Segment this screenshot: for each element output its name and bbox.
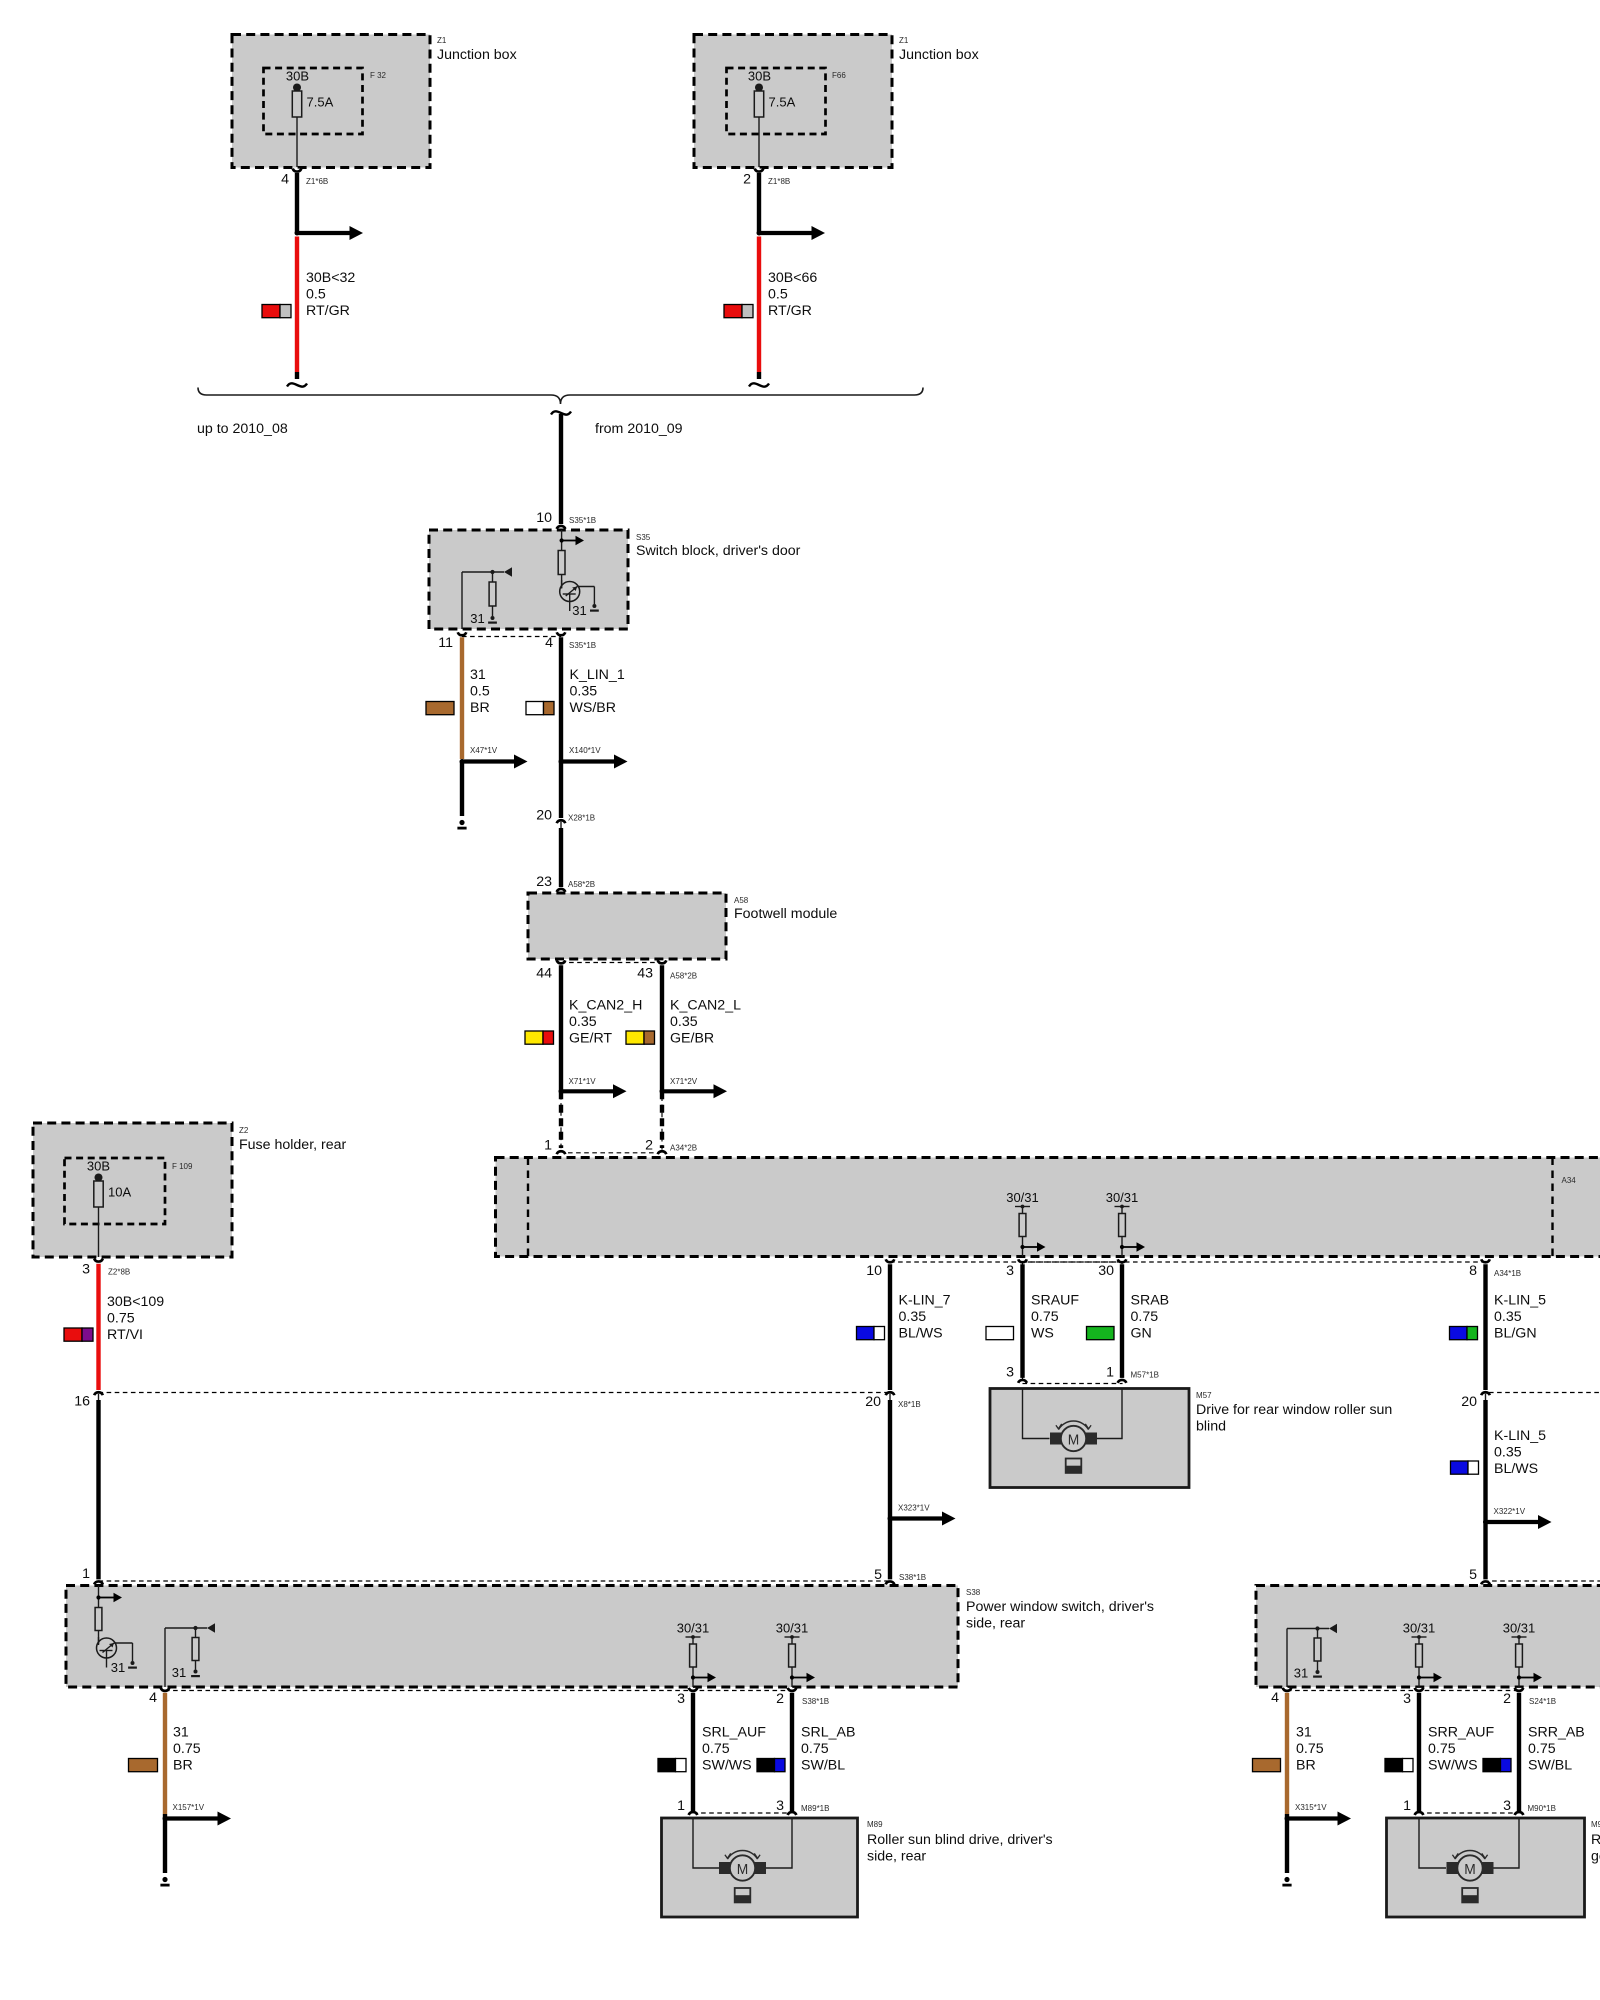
svg-text:3: 3 (776, 1798, 784, 1814)
svg-text:31: 31 (1294, 1666, 1308, 1681)
svg-text:31: 31 (470, 667, 486, 683)
svg-text:31: 31 (172, 1665, 186, 1680)
svg-text:A58: A58 (734, 896, 749, 905)
svg-text:4: 4 (1271, 1690, 1279, 1706)
svg-text:Z2*8B: Z2*8B (108, 1268, 130, 1277)
svg-text:A58*2B: A58*2B (670, 972, 697, 981)
svg-text:31: 31 (111, 1660, 125, 1675)
S24 30/31 resistor branch (SRR_AUF) (1403, 1621, 1442, 1687)
svg-text:3: 3 (1006, 1365, 1014, 1381)
S38 internal horn node (pin 4 branch) (165, 1623, 215, 1687)
svg-text:0.75: 0.75 (801, 1741, 829, 1757)
colour swatch GE/BR (626, 1031, 655, 1044)
svg-text:0.75: 0.75 (173, 1741, 201, 1757)
svg-text:2: 2 (645, 1137, 653, 1153)
S35 internal resistor to ground 31 (470, 572, 497, 626)
colour swatch GN (1087, 1327, 1115, 1340)
wire SRL_AB 0.75 SW/BL (790, 1693, 794, 1812)
svg-text:WS/BR: WS/BR (570, 700, 617, 716)
S38 30/31 resistor branch (SRL_AB) (776, 1621, 815, 1687)
label K_CAN2_L (670, 998, 741, 1047)
svg-text:SW/WS: SW/WS (702, 1758, 752, 1774)
svg-text:2: 2 (743, 172, 751, 188)
label 30B<66 (768, 270, 817, 319)
M57 motor wiring (1023, 1389, 1123, 1439)
variant brace (up to 2010_08 / from 2010_09) (197, 388, 923, 438)
svg-text:K_CAN2_H: K_CAN2_H (569, 998, 642, 1014)
wire 31 0.75 BR (brown) from S38 pin 4 (163, 1693, 167, 1814)
wire 30B&lt;66 0.5 RT/GR (red) (757, 237, 761, 380)
svg-text:2: 2 (776, 1691, 784, 1707)
label SRL_AB (801, 1725, 855, 1774)
label 30B<32 (306, 270, 355, 319)
S35 internal node with arrow (560, 530, 585, 550)
svg-text:M90: M90 (1591, 1820, 1600, 1829)
colour swatch SW/BL (757, 1759, 785, 1772)
power window switch S24 (passenger&#39;s side, rear) (1256, 1586, 1600, 1688)
dashed continuation of K_CAN2_H (559, 1091, 563, 1148)
node X323*1V with arrow (888, 1504, 956, 1526)
colour swatch BL/GN (1450, 1327, 1478, 1340)
footwell module A58 (528, 893, 837, 959)
wire from brace to S35 pin 10 (559, 414, 563, 524)
svg-text:K-LIN_5: K-LIN_5 (1494, 1293, 1546, 1309)
svg-text:S38*1B: S38*1B (802, 1697, 829, 1706)
svg-text:A34*2B: A34*2B (670, 1143, 697, 1152)
svg-text:30B<32: 30B<32 (306, 270, 355, 286)
svg-text:X315*1V: X315*1V (1295, 1803, 1327, 1812)
pin 16 connector (74, 1392, 103, 1409)
S35 transistor with ground 31 (560, 575, 599, 619)
S38 top connector row S38*1B (82, 1566, 892, 1584)
svg-text:44: 44 (536, 966, 552, 982)
fuse holder F 109 (65, 1158, 194, 1224)
S38 internal resistor (95, 1608, 102, 1631)
node X157*1V with arrow (163, 1803, 232, 1826)
node X315*1V with arrow (1285, 1803, 1352, 1826)
svg-text:30/31: 30/31 (1006, 1190, 1039, 1205)
node X71*1V with arrow (559, 1077, 627, 1098)
wire K-LIN_7 0.35 BL/WS (888, 1264, 892, 1390)
pin 10 connector S35*1B (536, 510, 596, 529)
svg-text:3: 3 (82, 1262, 90, 1278)
fuse F66 7.5A, circuit 30B (748, 69, 796, 168)
label 30B<109 (107, 1294, 164, 1343)
S24 bottom connector row S24*1B: pins 4, 3, 2 (1271, 1688, 1556, 1707)
svg-text:0.75: 0.75 (1528, 1741, 1556, 1757)
svg-text:K_LIN_1: K_LIN_1 (570, 667, 625, 683)
svg-text:X47*1V: X47*1V (470, 746, 498, 755)
svg-text:0.75: 0.75 (702, 1741, 730, 1757)
svg-text:Junction box: Junction box (437, 47, 517, 63)
label K-LIN_5 BL/GN (1494, 1293, 1546, 1342)
pin 3 connector Z2*8B (82, 1259, 130, 1278)
switch block S35 (driver&#39;s door) (429, 530, 801, 629)
svg-text:0.75: 0.75 (1428, 1741, 1456, 1757)
svg-text:10A: 10A (108, 1185, 131, 1200)
svg-text:1: 1 (82, 1566, 90, 1582)
svg-text:4: 4 (149, 1690, 157, 1706)
svg-text:M: M (737, 1861, 749, 1878)
connector row right of pin 20 (1489, 1392, 1600, 1394)
twisted pair envelope (K_CAN2) (561, 963, 662, 1153)
wire K-LIN_5 0.35 BL/WS (1483, 1400, 1487, 1579)
svg-text:4: 4 (545, 635, 553, 651)
M90 connector row M90*1B: pins 1, 3 (1403, 1798, 1556, 1815)
colour swatch RT/VI (64, 1328, 93, 1341)
svg-text:SW/WS: SW/WS (1428, 1758, 1478, 1774)
svg-text:30/31: 30/31 (776, 1621, 809, 1636)
fuse holder F32 (264, 68, 387, 134)
svg-text:Roller sun blind drive, passen: Roller sun blind drive, passen (1591, 1832, 1600, 1848)
svg-text:4: 4 (281, 172, 289, 188)
svg-text:A34*1B: A34*1B (1494, 1269, 1521, 1278)
svg-text:A58*2B: A58*2B (568, 880, 595, 889)
svg-text:3: 3 (1403, 1691, 1411, 1707)
svg-text:GE/BR: GE/BR (670, 1031, 714, 1047)
wire to footwell module (559, 828, 563, 887)
colour swatch GE/RT (525, 1031, 554, 1044)
svg-text:S24*1B: S24*1B (1529, 1697, 1556, 1706)
svg-text:Z1: Z1 (899, 36, 909, 45)
svg-text:SW/BL: SW/BL (801, 1758, 845, 1774)
svg-text:Switch block, driver's door: Switch block, driver's door (636, 543, 801, 559)
inline connector pin 20 X28*1B (536, 808, 595, 829)
svg-text:3: 3 (1006, 1263, 1014, 1279)
wire SRAUF 0.75 WS (1020, 1264, 1024, 1378)
svg-text:F 109: F 109 (172, 1162, 193, 1171)
label K-LIN_7 (899, 1293, 951, 1342)
svg-text:Drive for rear window roller s: Drive for rear window roller sun (1196, 1402, 1392, 1418)
svg-text:0.35: 0.35 (1494, 1445, 1522, 1461)
A34 30/31 resistor branch (SRAUF) (1006, 1190, 1045, 1256)
svg-text:8: 8 (1469, 1263, 1477, 1279)
wire stub to termination (457, 762, 466, 829)
svg-text:0.5: 0.5 (768, 287, 788, 303)
svg-text:SW/BL: SW/BL (1528, 1758, 1572, 1774)
svg-text:10: 10 (866, 1263, 882, 1279)
label SRR_AUF (1428, 1725, 1495, 1774)
svg-text:M: M (1068, 1432, 1080, 1449)
M57 connector row M57*1B: pins 3, 1 (1006, 1365, 1159, 1383)
wire SRR_AB 0.75 SW/BL (1517, 1693, 1521, 1812)
svg-text:31: 31 (470, 611, 484, 626)
junction box Z1 (right) (694, 35, 979, 168)
svg-text:BR: BR (173, 1758, 193, 1774)
svg-text:SRR_AUF: SRR_AUF (1428, 1725, 1495, 1741)
svg-text:blind: blind (1196, 1419, 1226, 1435)
pin 23 connector A58*2B (536, 874, 595, 892)
A58 bottom connector row A58*2B: pins 44, 43 (536, 960, 697, 981)
svg-text:BL/GN: BL/GN (1494, 1326, 1537, 1342)
drive for rear window roller sun blind M57 (990, 1389, 1392, 1488)
svg-text:0.35: 0.35 (899, 1309, 927, 1325)
svg-text:GN: GN (1131, 1326, 1152, 1342)
svg-text:Z2: Z2 (239, 1126, 249, 1135)
M90 motor wiring (1419, 1818, 1519, 1868)
svg-text:0.35: 0.35 (570, 684, 598, 700)
svg-text:0.5: 0.5 (470, 684, 490, 700)
svg-text:M89*1B: M89*1B (801, 1804, 829, 1813)
svg-text:0.75: 0.75 (1031, 1309, 1059, 1325)
wire to X323 node (888, 1400, 892, 1579)
svg-text:S35*1B: S35*1B (569, 641, 596, 650)
svg-text:20: 20 (1461, 1394, 1477, 1410)
svg-text:A34: A34 (1562, 1176, 1577, 1185)
A34 30/31 resistor branch (SRAB) (1106, 1190, 1145, 1256)
svg-text:31: 31 (173, 1725, 189, 1741)
svg-text:3: 3 (677, 1691, 685, 1707)
svg-text:X157*1V: X157*1V (173, 1803, 205, 1812)
fuse holder Z2, rear (33, 1123, 347, 1257)
M89 motor wiring (693, 1818, 792, 1868)
roller sun blind drive M89 (driver&#39;s side, rear) (662, 1818, 1053, 1917)
svg-text:Fuse holder, rear: Fuse holder, rear (239, 1137, 347, 1153)
svg-text:Roller sun blind drive, driver: Roller sun blind drive, driver's (867, 1832, 1053, 1848)
svg-text:M89: M89 (867, 1820, 883, 1829)
label K-LIN_5 BL/WS (1494, 1428, 1546, 1477)
svg-text:Z1*8B: Z1*8B (768, 177, 790, 186)
A34 bottom connector row A34*1B: pins 10, 3, 30, 8 (866, 1259, 1521, 1279)
label K_LIN_1 (570, 667, 625, 716)
svg-text:Power window switch, driver's: Power window switch, driver's (966, 1599, 1154, 1615)
svg-text:S35: S35 (636, 533, 651, 542)
svg-text:RT/GR: RT/GR (306, 303, 350, 319)
svg-text:F66: F66 (832, 71, 846, 80)
svg-text:Junction box: Junction box (899, 47, 979, 63)
colour swatch BL/WS (857, 1327, 885, 1340)
wire break symbol (287, 383, 307, 386)
svg-text:from 2010_09: from 2010_09 (595, 421, 683, 437)
svg-text:16: 16 (74, 1394, 90, 1410)
svg-text:SRR_AB: SRR_AB (1528, 1725, 1585, 1741)
power window switch S38 (driver&#39;s side, rear) (66, 1586, 1154, 1688)
colour swatch BL/WS (1451, 1461, 1479, 1474)
svg-text:Z1*6B: Z1*6B (306, 177, 328, 186)
svg-text:X71*2V: X71*2V (670, 1077, 698, 1086)
node/junction with arrow (right) (757, 226, 826, 240)
svg-text:3: 3 (1503, 1798, 1511, 1814)
svg-text:31: 31 (1296, 1725, 1312, 1741)
svg-text:20: 20 (536, 808, 552, 824)
svg-text:Z1: Z1 (437, 36, 447, 45)
svg-text:M57*1B: M57*1B (1131, 1371, 1159, 1380)
svg-text:K-LIN_7: K-LIN_7 (899, 1293, 951, 1309)
svg-text:30B: 30B (748, 69, 771, 84)
svg-text:GE/RT: GE/RT (569, 1031, 612, 1047)
svg-text:5: 5 (1469, 1567, 1477, 1583)
svg-text:K_CAN2_L: K_CAN2_L (670, 998, 741, 1014)
colour swatch RT/GR (724, 305, 753, 318)
svg-text:SRL_AUF: SRL_AUF (702, 1725, 766, 1741)
motor M90 (1447, 1851, 1494, 1903)
S24 30/31 resistor branch (SRR_AB) (1503, 1621, 1542, 1687)
wire stub to termination (160, 1814, 169, 1885)
colour swatch SW/BL (1483, 1759, 1511, 1772)
svg-text:31: 31 (572, 603, 586, 618)
svg-text:up to 2010_08: up to 2010_08 (197, 421, 288, 437)
wire pin 16 to S38 pin 1 (96, 1400, 100, 1579)
svg-text:1: 1 (544, 1137, 552, 1153)
S38 internal resistor to ground 31 (172, 1628, 200, 1680)
wire SRAB 0.75 GN (1120, 1264, 1124, 1378)
S35 bottom connector row S35*1B (438, 632, 596, 651)
svg-text:11: 11 (438, 635, 453, 651)
label K_CAN2_H (569, 998, 642, 1047)
svg-text:30: 30 (1098, 1263, 1114, 1279)
control unit A34 (496, 1158, 1600, 1257)
svg-text:0.35: 0.35 (1494, 1309, 1522, 1325)
svg-text:side, rear: side, rear (966, 1616, 1025, 1632)
svg-text:WS: WS (1031, 1326, 1054, 1342)
svg-text:43: 43 (637, 966, 653, 982)
svg-text:7.5A: 7.5A (307, 95, 334, 110)
svg-text:7.5A: 7.5A (769, 95, 796, 110)
svg-text:K-LIN_5: K-LIN_5 (1494, 1428, 1546, 1444)
svg-text:M: M (1464, 1861, 1476, 1878)
S38 internal node with arrow (pin 1 branch) (96, 1586, 122, 1608)
inline connector pin 20 (right) (1461, 1392, 1490, 1410)
S38 bottom connector row S38*1B: pins 4, 3, 2 (149, 1688, 829, 1707)
inline connector pin 20 X8*1B (865, 1392, 920, 1410)
svg-text:1: 1 (1403, 1798, 1411, 1814)
svg-text:10: 10 (536, 510, 552, 526)
wire 30B&lt;32 0.5 RT/GR (red) (295, 237, 299, 380)
wire SRR_AUF 0.75 SW/WS (1417, 1693, 1421, 1812)
colour swatch WS/BR (526, 702, 554, 715)
svg-text:RT/VI: RT/VI (107, 1327, 143, 1343)
svg-text:0.75: 0.75 (1131, 1309, 1159, 1325)
svg-text:30/31: 30/31 (1503, 1621, 1536, 1636)
svg-text:M90*1B: M90*1B (1528, 1804, 1556, 1813)
long connector row (pin 16 to pin 20) (99, 1392, 888, 1394)
svg-text:30B: 30B (87, 1159, 110, 1174)
label SRL_AUF (702, 1725, 766, 1774)
colour swatch BR (426, 702, 454, 715)
svg-text:SRAB: SRAB (1131, 1293, 1170, 1309)
junction box Z1 (left) (232, 35, 517, 168)
S35 internal horn node (pin 11 branch) (462, 567, 512, 629)
svg-text:5: 5 (874, 1567, 882, 1583)
roller sun blind drive M90 (passenger&#39;s side, rear) (1387, 1818, 1600, 1917)
svg-text:30B<109: 30B<109 (107, 1294, 164, 1310)
label 31 0.75 BR (1296, 1725, 1324, 1774)
svg-text:23: 23 (536, 874, 552, 890)
svg-text:S38: S38 (966, 1588, 981, 1597)
svg-text:X8*1B: X8*1B (898, 1400, 921, 1409)
wire K_LIN_1 0.35 WS/BR (559, 637, 563, 818)
wire break symbol (749, 383, 769, 386)
S24 internal resistor to ground 31 (1294, 1629, 1322, 1681)
svg-text:BR: BR (470, 700, 490, 716)
svg-text:X71*1V: X71*1V (569, 1077, 597, 1086)
pin 4 connector Z1*6B (281, 169, 328, 188)
svg-text:30B: 30B (286, 69, 309, 84)
svg-text:M57: M57 (1196, 1391, 1212, 1400)
svg-text:F 32: F 32 (370, 71, 387, 80)
svg-text:BR: BR (1296, 1758, 1316, 1774)
label SRAB (1131, 1293, 1170, 1342)
motor M57 (1050, 1421, 1097, 1473)
S38 30/31 resistor branch (SRL_AUF) (677, 1621, 716, 1687)
wire stub to termination (1282, 1814, 1291, 1885)
svg-text:30/31: 30/31 (677, 1621, 710, 1636)
wire K_CAN2_L 0.35 GE/BR (660, 965, 664, 1091)
label SRAUF (1031, 1293, 1079, 1342)
node X322*1V with arrow (1483, 1507, 1552, 1529)
svg-text:S35*1B: S35*1B (569, 516, 596, 525)
S35 internal resistor (558, 551, 565, 575)
S24 top connector row S24*1B (1469, 1567, 1600, 1584)
colour swatch SW/WS (658, 1759, 686, 1772)
svg-text:X28*1B: X28*1B (568, 814, 595, 823)
svg-text:BL/WS: BL/WS (899, 1326, 943, 1342)
svg-text:ger's side, rear: ger's side, rear (1591, 1849, 1600, 1865)
wire from Z1 pin 4 (295, 173, 299, 233)
svg-text:30/31: 30/31 (1106, 1190, 1139, 1205)
svg-text:X322*1V: X322*1V (1494, 1507, 1526, 1516)
svg-text:BL/WS: BL/WS (1494, 1461, 1538, 1477)
motor M89 (719, 1851, 766, 1903)
label 31 0.75 BR (173, 1725, 201, 1774)
A34 top connector row A34*2B: pins 1, 2 (544, 1137, 697, 1154)
svg-text:30/31: 30/31 (1403, 1621, 1436, 1636)
svg-text:2: 2 (1503, 1691, 1511, 1707)
wire SRL_AUF 0.75 SW/WS (691, 1693, 695, 1812)
node X71*2V with arrow (660, 1077, 728, 1098)
dashed continuation of K_CAN2_L (660, 1091, 664, 1148)
svg-text:30B<66: 30B<66 (768, 270, 817, 286)
colour swatch RT/GR (262, 305, 291, 318)
M89 connector row M89*1B: pins 1, 3 (677, 1798, 829, 1815)
label 31 0.5 BR (470, 667, 490, 716)
node/junction with arrow (left) (295, 226, 364, 240)
twisted pair envelope (SRAUF/SRAB) (1023, 1262, 1123, 1384)
fuse holder F66 (727, 68, 847, 134)
colour swatch WS (986, 1327, 1014, 1340)
label SRR_AB (1528, 1725, 1585, 1774)
svg-text:20: 20 (865, 1394, 881, 1410)
svg-text:0.75: 0.75 (107, 1311, 135, 1327)
svg-text:Footwell module: Footwell module (734, 906, 837, 922)
wire K_CAN2_H 0.35 GE/RT (559, 965, 563, 1091)
colour swatch BR (1253, 1759, 1281, 1772)
pin 5 connector S38*1B (874, 1567, 926, 1584)
svg-text:SRL_AB: SRL_AB (801, 1725, 855, 1741)
svg-text:1: 1 (677, 1798, 685, 1814)
svg-text:0.35: 0.35 (670, 1014, 698, 1030)
svg-text:X323*1V: X323*1V (898, 1504, 930, 1513)
svg-text:side, rear: side, rear (867, 1849, 926, 1865)
svg-text:0.75: 0.75 (1296, 1741, 1324, 1757)
fuse F32 7.5A, circuit 30B (286, 69, 334, 168)
svg-text:0.35: 0.35 (569, 1014, 597, 1030)
svg-text:1: 1 (1106, 1365, 1114, 1381)
fuse F109 10A, circuit 30B (87, 1159, 132, 1258)
pin 2 connector Z1*8B (743, 169, 790, 188)
colour swatch BR (129, 1759, 158, 1772)
svg-text:RT/GR: RT/GR (768, 303, 812, 319)
node X140*1V with arrow (559, 746, 628, 769)
S24 internal horn node (pin 4 branch) (1287, 1624, 1337, 1687)
svg-text:SRAUF: SRAUF (1031, 1293, 1079, 1309)
node X47*1V with arrow (460, 746, 528, 769)
wire from Z1 pin 2 (757, 173, 761, 233)
svg-text:X140*1V: X140*1V (569, 746, 601, 755)
svg-text:0.5: 0.5 (306, 287, 326, 303)
wire 31 0.5 BR (brown) from S35 pin 11 (460, 637, 464, 759)
wire 31 0.75 BR (brown) from S24 pin 4 (1285, 1693, 1289, 1814)
